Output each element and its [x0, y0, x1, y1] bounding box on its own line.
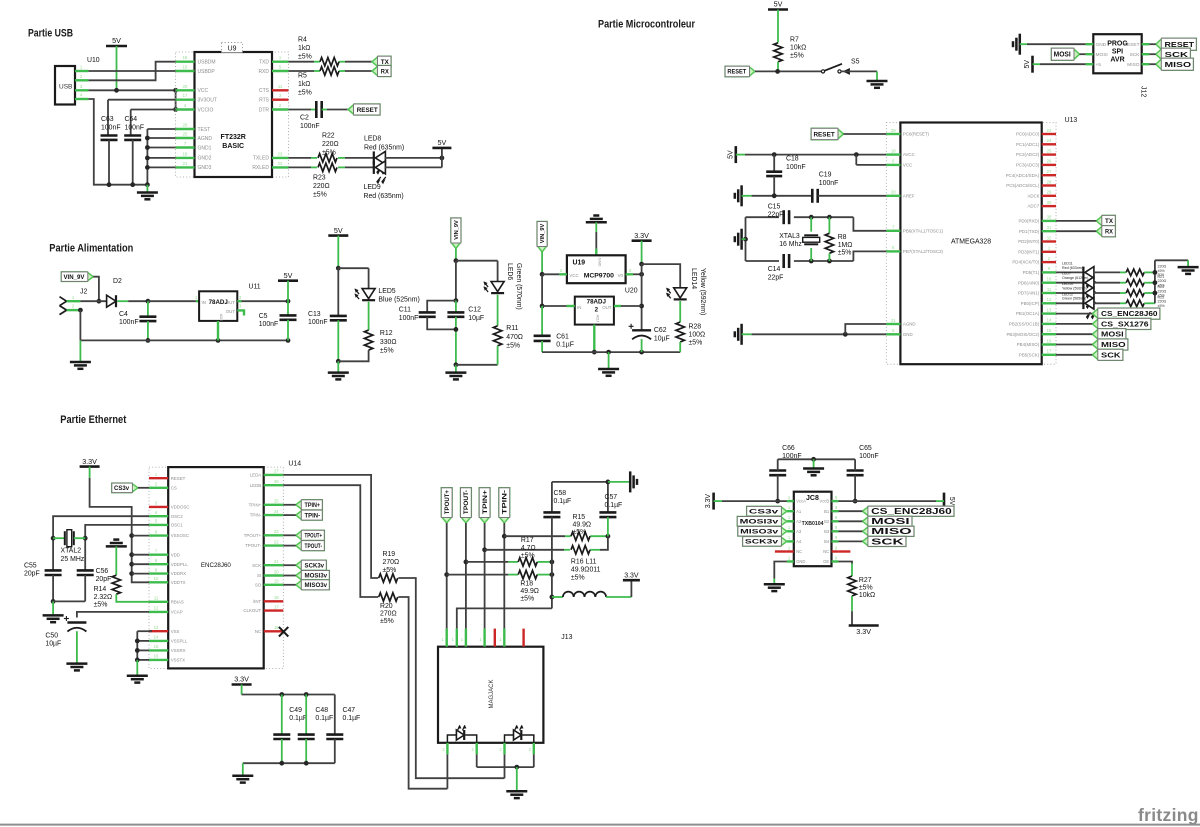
svg-text:BASIC: BASIC — [222, 143, 244, 150]
svg-text:U13: U13 — [1065, 117, 1078, 124]
net flag TPIN- (U14) — [296, 510, 323, 520]
capacitor C63 — [101, 116, 121, 187]
svg-text:J12: J12 — [1140, 86, 1147, 97]
power 5V (J12) — [1024, 56, 1040, 73]
svg-text:U10: U10 — [87, 57, 100, 64]
svg-text:100nF: 100nF — [119, 319, 139, 326]
wire 3.3V col down — [639, 264, 644, 330]
svg-text:SCK: SCK — [871, 537, 904, 546]
svg-text:19: 19 — [274, 579, 279, 584]
net flag MOSI (U13) — [1092, 329, 1126, 340]
svg-text:CS_SX1276: CS_SX1276 — [1101, 321, 1149, 328]
svg-text:Partie Microcontroleur: Partie Microcontroleur — [598, 19, 696, 31]
svg-text:LEDA: LEDA — [250, 473, 262, 478]
svg-text:16: 16 — [1047, 338, 1052, 343]
IC U19 MCP9700 — [560, 255, 632, 283]
svg-text:TXB0104: TXB0104 — [802, 521, 824, 527]
svg-text:LED5: LED5 — [378, 288, 395, 295]
ground (USB) — [137, 185, 158, 200]
svg-text:1MΩ: 1MΩ — [838, 242, 853, 249]
svg-text:TPIN+: TPIN+ — [305, 503, 321, 509]
wire R16 row — [485, 536, 608, 550]
svg-text:Partie USB: Partie USB — [28, 28, 73, 40]
wire R18 row — [447, 572, 555, 577]
ground (JC8 caps) — [803, 459, 824, 475]
wire B3 — [838, 530, 862, 532]
wire TPOUT+ col — [444, 523, 449, 629]
wire C2 to RESET flag — [322, 109, 348, 111]
svg-text:±5%: ±5% — [573, 529, 587, 536]
svg-text:XTAL2: XTAL2 — [61, 548, 82, 555]
svg-text:MOSI3v: MOSI3v — [305, 574, 328, 580]
svg-text:15: 15 — [183, 65, 188, 70]
wire VDDPLL — [132, 563, 149, 565]
svg-text:VIN_9V: VIN_9V — [454, 220, 460, 240]
crystal XTAL3 — [779, 217, 820, 261]
svg-text:CS: CS — [171, 485, 177, 490]
svg-text:±5%: ±5% — [1158, 304, 1166, 308]
svg-text:MOSI: MOSI — [1054, 52, 1071, 59]
wire xtal to PB7 — [853, 251, 886, 261]
svg-text:PB6(XTAL1/TOSC1): PB6(XTAL1/TOSC1) — [903, 228, 944, 233]
wire LED11 to resistor — [1093, 271, 1126, 273]
svg-text:D2: D2 — [113, 278, 122, 285]
svg-text:RESET: RESET — [727, 69, 746, 76]
svg-text:PB5(SCK): PB5(SCK) — [1019, 352, 1040, 357]
wire xtal left rail — [743, 217, 748, 261]
capacitor C56 — [77, 568, 112, 583]
svg-text:S5: S5 — [851, 59, 860, 66]
capacitor C50 — [45, 616, 86, 663]
svg-text:MCP9700: MCP9700 — [584, 273, 614, 280]
svg-text:AVR: AVR — [1110, 57, 1124, 64]
svg-text:±5%: ±5% — [859, 585, 873, 592]
svg-text:C50: C50 — [45, 633, 58, 640]
svg-text:AGND: AGND — [903, 322, 916, 327]
svg-text:0.1µF: 0.1µF — [315, 715, 333, 722]
capacitor C2 — [300, 101, 322, 130]
power 3.3V (L11) — [623, 572, 640, 597]
capacitor C57 — [599, 482, 622, 536]
svg-text:TXLED: TXLED — [253, 156, 270, 162]
wire R23 to LED9 — [345, 166, 374, 168]
svg-text:10kΩ: 10kΩ — [790, 45, 806, 52]
svg-text:C49: C49 — [289, 707, 302, 714]
wire LED9 to 5V rail — [385, 149, 442, 168]
svg-text:100nF: 100nF — [259, 321, 279, 328]
svg-text:GND3: GND3 — [198, 165, 212, 171]
capacitor C65 — [847, 445, 879, 503]
svg-text:RESET: RESET — [1124, 42, 1140, 48]
bottom frame line — [0, 824, 1200, 826]
resistor R5 — [298, 67, 339, 97]
wire LEDB to R20 — [283, 485, 378, 597]
svg-text:A2: A2 — [796, 519, 802, 524]
wire LED14 to R28 — [679, 301, 681, 322]
svg-text:TEST: TEST — [198, 127, 211, 133]
svg-text:±5%: ±5% — [506, 343, 520, 350]
svg-text:OSC1: OSC1 — [171, 523, 184, 528]
svg-text:C18: C18 — [786, 156, 799, 163]
power 5V (LED5) — [328, 226, 348, 271]
wire xtal bottom row — [746, 259, 854, 264]
svg-text:B4: B4 — [824, 539, 830, 544]
svg-text:PB0(ICP): PB0(ICP) — [1021, 301, 1040, 306]
ground (U19 top) — [586, 216, 607, 233]
svg-text:R5: R5 — [298, 73, 307, 80]
wire R11 down — [497, 346, 499, 365]
capacitor C64 — [124, 116, 144, 187]
svg-text:100nF: 100nF — [300, 123, 320, 130]
wire OSC2 — [51, 516, 149, 570]
svg-text:VccA: VccA — [796, 499, 806, 504]
wire USB pin1 to USBDP — [88, 70, 175, 72]
svg-text:PB4(MISO): PB4(MISO) — [1017, 342, 1040, 347]
wire USB pin2 to USBDM — [88, 62, 175, 81]
svg-text:0.1µF: 0.1µF — [343, 715, 361, 722]
svg-text:MISO3v: MISO3v — [305, 583, 328, 589]
svg-text:NC: NC — [255, 629, 261, 634]
svg-text:5V: 5V — [774, 0, 783, 9]
ground (U13 GND) — [735, 324, 752, 345]
capacitor C61 — [534, 306, 574, 352]
svg-text:25: 25 — [183, 132, 188, 137]
svg-text:100nF: 100nF — [786, 164, 806, 171]
wire PD to LED7 — [1056, 282, 1083, 284]
svg-text:LED8: LED8 — [364, 136, 381, 143]
svg-text:B3: B3 — [824, 529, 830, 534]
wire to LED14 — [642, 264, 681, 288]
svg-text:31: 31 — [1047, 225, 1052, 230]
svg-text:11: 11 — [1047, 287, 1052, 292]
svg-text:OUT: OUT — [602, 305, 612, 310]
wire J2 to diode — [80, 300, 106, 302]
svg-text:3.3V: 3.3V — [634, 231, 649, 240]
wire LED rail — [1153, 260, 1189, 303]
svg-text:RBIAS: RBIAS — [171, 599, 184, 604]
wire USB pin3 to VCC — [88, 89, 175, 91]
svg-text:VDDOSC: VDDOSC — [171, 505, 190, 510]
resistor LED7 series — [1126, 275, 1166, 287]
wire to LED6 col — [456, 260, 498, 262]
IC U14 ENC28J60 — [149, 461, 301, 669]
wire VIN to node — [93, 277, 101, 304]
wire top gnd rail — [552, 480, 629, 485]
wire USB pin4 down — [88, 99, 147, 185]
wire C19 to AREF — [818, 195, 887, 197]
capacitor C55 — [24, 563, 62, 578]
svg-text:TX: TX — [1105, 218, 1114, 225]
svg-text:23: 23 — [278, 151, 283, 156]
svg-text:PD7(AIN1): PD7(AIN1) — [1018, 291, 1040, 296]
svg-text:10µF: 10µF — [45, 641, 61, 648]
svg-text:PB1(OC1A): PB1(OC1A) — [1016, 311, 1040, 316]
wire 5V to AVCC — [745, 152, 886, 157]
svg-text:R17: R17 — [521, 537, 534, 544]
connector J2 — [60, 289, 88, 315]
svg-text:U20: U20 — [625, 288, 638, 295]
resistor LED12 series — [1126, 296, 1166, 308]
wire center tap — [457, 562, 555, 629]
ground (XTAL2) — [43, 601, 64, 622]
svg-text:15: 15 — [1047, 328, 1052, 333]
svg-text:±5%: ±5% — [298, 54, 312, 61]
net flag SCK3v (U14) — [296, 560, 327, 570]
svg-text:C63: C63 — [101, 116, 114, 123]
svg-text:ADJ: ADJ — [596, 315, 601, 323]
LED LED10 — [1062, 282, 1095, 308]
svg-text:PD1(TXD): PD1(TXD) — [1019, 229, 1040, 234]
svg-text:SCK3v: SCK3v — [745, 539, 779, 546]
wire OUT lead — [614, 305, 642, 307]
wire PD to LED10 — [1056, 292, 1083, 294]
svg-text:XTAL3: XTAL3 — [779, 233, 800, 240]
wire PB5 — [1056, 354, 1092, 356]
svg-text:3.3V: 3.3V — [856, 627, 871, 636]
wire R19 to magjack — [398, 578, 504, 778]
svg-text:±5%: ±5% — [380, 618, 394, 625]
no-connect NC (U14) — [279, 627, 288, 637]
svg-text:Green (570nm): Green (570nm) — [515, 263, 522, 310]
svg-text:28: 28 — [1047, 179, 1052, 184]
resistor LED10 series — [1126, 285, 1166, 297]
wire AVCC to VCC — [856, 155, 886, 165]
wire R17 row — [466, 560, 554, 565]
svg-text:3.3V: 3.3V — [624, 572, 639, 579]
svg-text:±5%: ±5% — [380, 348, 394, 355]
net flag CS_SX1276 — [1092, 318, 1151, 329]
svg-text:MOSI: MOSI — [871, 517, 910, 526]
power 5V (U11 out) — [278, 271, 298, 301]
svg-text:U9: U9 — [228, 46, 237, 53]
svg-text:VDDPLL: VDDPLL — [171, 562, 189, 567]
svg-text:R23: R23 — [313, 175, 326, 182]
svg-text:16: 16 — [154, 654, 159, 659]
crystal XTAL2 — [53, 530, 85, 563]
svg-text:MOSI: MOSI — [1096, 52, 1108, 58]
resistor R28 — [676, 322, 705, 347]
wire LED10 to resistor — [1093, 292, 1126, 294]
wire 3V3OUT — [108, 100, 176, 136]
svg-text:PD2(INT0): PD2(INT0) — [1018, 239, 1040, 244]
resistor R18 — [518, 570, 539, 602]
svg-text:0.1µF: 0.1µF — [289, 715, 307, 722]
wire C55/C56 gnd — [51, 575, 86, 604]
svg-text:B2: B2 — [824, 519, 830, 524]
wire R28 down — [679, 342, 681, 352]
wire DTR to C2 — [289, 109, 317, 111]
capacitor C11 — [399, 301, 456, 330]
svg-text:U11: U11 — [249, 284, 261, 291]
svg-text:VccB: VccB — [819, 499, 829, 504]
ground (LED rail) — [1178, 267, 1199, 274]
svg-text:Red (635nm): Red (635nm) — [364, 145, 404, 152]
svg-text:CS_ENC28J60: CS_ENC28J60 — [1101, 311, 1158, 318]
svg-text:5V: 5V — [438, 138, 447, 147]
wire to LED5 — [338, 268, 368, 288]
net flag TPOUT- (J13) — [461, 488, 472, 523]
diode D2 — [107, 278, 122, 307]
svg-text:100nF: 100nF — [399, 315, 419, 322]
svg-text:JC8: JC8 — [806, 495, 819, 502]
wire R14 to RBIAS — [116, 594, 149, 602]
svg-text:SPI: SPI — [1112, 49, 1123, 56]
svg-text:26: 26 — [183, 123, 188, 128]
wire LED5 to R12 — [368, 302, 370, 330]
svg-text:C55: C55 — [24, 563, 37, 570]
wire VDD — [132, 554, 149, 556]
capacitor C13 — [308, 268, 347, 363]
svg-text:26: 26 — [1047, 159, 1052, 164]
capacitor C48 — [298, 695, 333, 764]
resistor R15 — [571, 514, 591, 540]
ground (R14 top) — [106, 540, 127, 576]
svg-text:NC: NC — [823, 549, 829, 554]
svg-text:A3: A3 — [796, 529, 802, 534]
wire J12 MISO — [1149, 63, 1155, 65]
net flag MISO (U13) — [1092, 339, 1128, 350]
svg-text:10kΩ: 10kΩ — [859, 592, 875, 599]
wire TPIN- — [283, 514, 296, 516]
wire bottom rail (alim) — [80, 338, 290, 343]
wire MOSI to J12 — [1080, 53, 1086, 55]
net flag CS_ENC28J60 (U13) — [1092, 308, 1160, 319]
svg-text:TXD: TXD — [259, 60, 269, 66]
svg-text:23: 23 — [1047, 128, 1052, 133]
IC JC8 TXB0104 — [787, 492, 839, 567]
svg-text:11: 11 — [278, 84, 283, 89]
wire ADJ — [592, 325, 597, 355]
net flag MOSI3v (JC8) — [737, 517, 787, 527]
svg-text:PD0(RXD): PD0(RXD) — [1018, 219, 1039, 224]
svg-text:LED7: LED7 — [1062, 272, 1071, 276]
svg-text:10: 10 — [154, 576, 159, 581]
svg-text:SCK3v: SCK3v — [305, 563, 325, 569]
wire bottom (LED6) — [456, 364, 498, 366]
svg-text:±5%: ±5% — [520, 596, 534, 603]
capacitor C15 — [768, 203, 789, 224]
wire PD1 to RX — [1056, 230, 1096, 232]
wire gnd to J12 — [1027, 43, 1086, 45]
net flag RESET (U13) — [811, 128, 843, 139]
svg-text:29: 29 — [1047, 190, 1052, 195]
capacitor C49 — [273, 695, 307, 764]
svg-text:TPOUT-: TPOUT- — [463, 490, 470, 514]
net flag MISO3v (U14) — [296, 580, 330, 590]
svg-text:±5%: ±5% — [571, 575, 585, 582]
svg-text:VCC: VCC — [903, 163, 912, 168]
svg-text:Partie Ethernet: Partie Ethernet — [60, 414, 126, 426]
svg-text:J13: J13 — [561, 634, 572, 641]
svg-text:±5%: ±5% — [322, 150, 336, 157]
ground (LED5) — [328, 361, 349, 379]
svg-text:SI: SI — [257, 573, 261, 578]
LED8 — [364, 136, 404, 175]
svg-text:C47: C47 — [343, 707, 356, 714]
svg-text:16 Mhz: 16 Mhz — [779, 241, 802, 248]
svg-text:PC5(ADC5/SCL): PC5(ADC5/SCL) — [1006, 183, 1039, 188]
svg-text:13: 13 — [1047, 307, 1052, 312]
svg-text:CTS: CTS — [259, 88, 270, 94]
svg-text:270Ω: 270Ω — [383, 559, 400, 566]
wire LEDA to R19 — [283, 475, 378, 578]
inductor L11 — [552, 592, 632, 597]
svg-text:20pF: 20pF — [24, 571, 40, 578]
svg-text:C12: C12 — [468, 307, 481, 314]
svg-text:C65: C65 — [859, 445, 872, 452]
wire C4 to U11 — [148, 300, 199, 302]
svg-text:26: 26 — [274, 479, 279, 484]
svg-text:ADC6: ADC6 — [1027, 193, 1039, 198]
capacitor C58 — [543, 482, 571, 562]
svg-text:10µF: 10µF — [654, 336, 670, 343]
net flag SCK (U13) — [1092, 349, 1123, 360]
svg-text:17: 17 — [183, 93, 188, 98]
svg-text:R19: R19 — [383, 551, 396, 558]
svg-text:LED6: LED6 — [506, 263, 513, 280]
svg-text:SCK: SCK — [1101, 352, 1121, 359]
wire R12 to gnd — [338, 350, 368, 361]
wire RXLED — [289, 166, 346, 168]
svg-text:A4: A4 — [796, 539, 802, 544]
svg-text:R8: R8 — [838, 234, 847, 241]
svg-text:±5%: ±5% — [790, 53, 804, 60]
switch S5 — [821, 59, 859, 75]
ground (C12) — [445, 365, 466, 380]
svg-text:1kΩ: 1kΩ — [298, 81, 310, 88]
svg-text:30: 30 — [1047, 200, 1052, 205]
wire PB3 — [1056, 333, 1092, 335]
wire TPIN+ — [283, 504, 296, 506]
svg-text:Yellow (592nm): Yellow (592nm) — [699, 268, 706, 315]
wire VCAP — [77, 612, 149, 618]
svg-text:220Ω: 220Ω — [313, 183, 330, 190]
wire 5V to J12 — [1040, 63, 1086, 65]
wire RESET to PC6 — [844, 133, 887, 135]
wire PB2 — [1056, 323, 1092, 325]
svg-text:C5: C5 — [259, 313, 268, 320]
svg-text:20: 20 — [274, 569, 279, 574]
net flag SCK3v (JC8) — [743, 537, 787, 547]
svg-text:CLKOUT: CLKOUT — [243, 608, 261, 613]
svg-text:C61: C61 — [556, 334, 569, 341]
wire D2 to C4 — [117, 299, 150, 304]
svg-text:10µF: 10µF — [468, 315, 484, 322]
wire B4 — [838, 540, 862, 542]
net flag MOSI (J12) — [1051, 48, 1079, 60]
svg-text:23: 23 — [274, 529, 279, 534]
resistor R19 — [379, 551, 399, 582]
wire VSS cluster — [135, 631, 152, 662]
svg-text:20: 20 — [183, 84, 188, 89]
svg-text:R18: R18 — [520, 581, 533, 588]
LED6 — [484, 261, 522, 310]
resistor R14 — [94, 575, 121, 608]
resistor R27 — [848, 576, 875, 599]
svg-text:12: 12 — [154, 606, 159, 611]
wire R4 to TX — [345, 61, 372, 63]
svg-text:4.7Ω: 4.7Ω — [521, 545, 536, 552]
wire RXD — [289, 70, 346, 72]
svg-text:VCC: VCC — [198, 88, 209, 94]
wire VIN col — [454, 249, 459, 304]
svg-text:±5%: ±5% — [838, 250, 852, 257]
wire PB1 — [1056, 313, 1092, 315]
svg-text:5V: 5V — [284, 271, 293, 280]
capacitor C18 — [766, 155, 805, 196]
wire U11 OUT2 stub — [237, 310, 244, 315]
svg-text:PC4(ADC4/SDA): PC4(ADC4/SDA) — [1006, 173, 1040, 178]
